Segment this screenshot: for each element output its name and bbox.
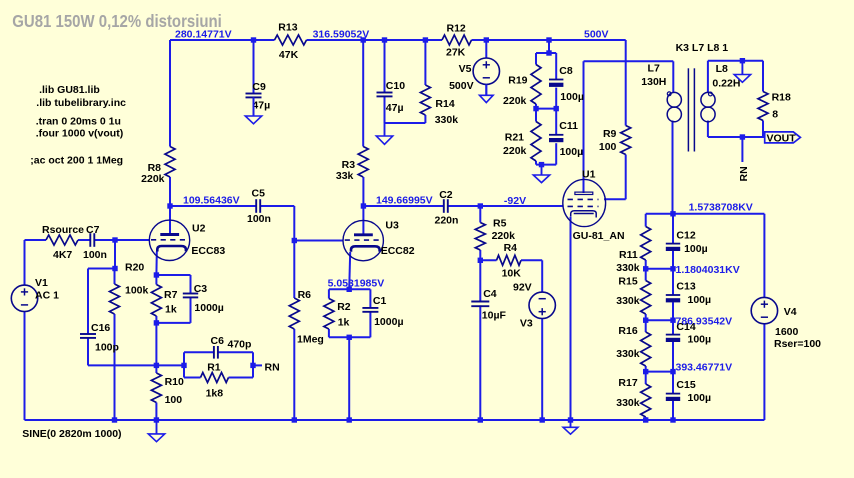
junction 12 <box>361 203 366 208</box>
svg-text:220k: 220k <box>503 145 527 157</box>
junction 13 <box>478 203 483 208</box>
wire R2 bottom lead <box>328 329 330 337</box>
wire R5 top lead <box>479 206 481 223</box>
wire R8 bottom to node 109V <box>169 177 171 206</box>
triode U2 ECC83 <box>149 220 225 260</box>
wire C6 left lead <box>184 351 214 353</box>
svg-text:1.5738708KV: 1.5738708KV <box>689 201 753 213</box>
title comment <box>12 11 222 31</box>
junction 23 <box>181 363 186 368</box>
svg-text:C16: C16 <box>91 322 110 334</box>
wire cathode node to ground rail <box>348 337 350 420</box>
junction 17 <box>154 272 159 277</box>
svg-text:470p: 470p <box>228 339 252 351</box>
wire L8 bottom to VOUT <box>708 136 765 138</box>
junction 31 <box>670 369 675 374</box>
svg-text:U3: U3 <box>385 219 399 231</box>
voltage source V5 <box>449 58 499 92</box>
wire rail 1.57KV <box>646 213 765 215</box>
wire R17 bottom lead <box>645 417 647 420</box>
wire R17 top lead <box>645 372 647 384</box>
resistor R3 <box>336 147 368 183</box>
wire R10 bottom lead <box>155 403 157 421</box>
svg-text:47µ: 47µ <box>252 99 270 111</box>
svg-text:R21: R21 <box>505 131 524 143</box>
ground below C9 <box>245 97 261 123</box>
svg-text:27K: 27K <box>446 47 466 59</box>
wire R1C6 loop to RN stub <box>253 364 262 366</box>
resistor R20 <box>110 262 149 315</box>
svg-text:R7: R7 <box>164 289 178 301</box>
spice directive ;ac <box>30 155 123 167</box>
junction 21 <box>347 335 352 340</box>
svg-text:100µ: 100µ <box>688 392 712 404</box>
svg-text:220k: 220k <box>503 95 527 107</box>
wire R16 bottom lead <box>645 366 647 372</box>
resistor R18 <box>758 91 791 120</box>
svg-text:L8: L8 <box>716 63 728 75</box>
junction 9 <box>554 106 559 111</box>
svg-text:100n: 100n <box>83 249 107 261</box>
wire R18 top lead <box>762 61 764 92</box>
wire C8 top lead <box>555 53 557 80</box>
node 786.93542V <box>676 315 733 327</box>
wire C13 top lead <box>672 269 674 295</box>
svg-text:330k: 330k <box>435 114 459 126</box>
wire R4 left lead <box>480 259 496 261</box>
net label RN rotated <box>738 166 750 181</box>
node 1.5738708KV <box>689 201 753 213</box>
capacitor C1 <box>362 295 403 328</box>
wire to C16 top <box>88 268 115 270</box>
wire R1C6 loop right up <box>252 352 254 365</box>
svg-text:R18: R18 <box>772 91 791 103</box>
svg-text:R20: R20 <box>125 262 144 274</box>
wire C6 right lead <box>218 351 253 353</box>
svg-text:1k: 1k <box>338 317 350 329</box>
svg-text:786.93542V: 786.93542V <box>676 315 733 327</box>
svg-text:C4: C4 <box>483 288 497 300</box>
svg-text:10K: 10K <box>502 268 522 280</box>
wire U1 plate lead <box>583 61 585 193</box>
capacitor C12 polarized <box>666 229 708 255</box>
svg-text:.tran 0 20ms 0 1u: .tran 0 20ms 0 1u <box>36 115 121 127</box>
wire R15 top lead <box>645 269 647 281</box>
spice directive .lib GU81.lib <box>39 84 100 96</box>
wire C1 bottom lead <box>369 312 371 337</box>
resistor R16 <box>616 325 650 366</box>
svg-text:1Meg: 1Meg <box>297 334 324 346</box>
wire C7 to grid node <box>94 239 115 241</box>
svg-text:47µ: 47µ <box>386 102 404 114</box>
wire R14 top lead <box>424 40 426 85</box>
wire L7 bottom lead <box>672 121 674 214</box>
svg-text:C5: C5 <box>252 188 266 200</box>
wire V5 bottom lead <box>485 85 487 96</box>
capacitor C14 polarized <box>666 321 711 346</box>
wire C3 bottom lead <box>190 297 192 323</box>
svg-text:33k: 33k <box>336 170 354 182</box>
svg-text:1000µ: 1000µ <box>374 316 403 328</box>
wire R1C6 loop right down <box>252 365 254 377</box>
resistor R21 <box>503 122 541 162</box>
inductor L8 secondary <box>701 63 741 122</box>
wire V4 bottom lead <box>763 324 765 420</box>
wire V1 to Rsource <box>25 239 47 241</box>
wire R21/C11 bottom link <box>536 164 556 166</box>
label C4 <box>482 288 507 322</box>
resistor R1 <box>201 362 229 400</box>
svg-text:1.1804031KV: 1.1804031KV <box>676 264 740 276</box>
wire L8 top to R18 <box>708 60 763 62</box>
capacitor C10 <box>377 80 406 114</box>
capacitor C9 <box>246 81 271 111</box>
wire R15 bottom lead <box>645 314 647 320</box>
wire C10 bottom lead <box>384 96 386 123</box>
wire R2 top lead <box>328 289 330 298</box>
svg-text:109.56436V: 109.56436V <box>183 194 240 206</box>
wire Rsource to C7 <box>78 239 90 241</box>
wire R1 left lead <box>184 377 201 379</box>
svg-text:500V: 500V <box>449 80 474 92</box>
resistor R4 <box>497 242 522 280</box>
wire C15 top lead <box>672 372 674 394</box>
svg-text:C11: C11 <box>559 120 578 132</box>
resistor R11 <box>616 227 650 275</box>
svg-text:U2: U2 <box>192 222 206 234</box>
svg-text:220n: 220n <box>435 215 459 227</box>
junction 1 <box>251 37 256 42</box>
svg-text:R4: R4 <box>504 242 518 254</box>
svg-text:R19: R19 <box>508 74 527 86</box>
output port flag VOUT <box>765 132 801 144</box>
capacitor C3 <box>183 283 224 314</box>
capacitor C15 polarized <box>666 379 711 404</box>
svg-text:SINE(0 2820m 1000): SINE(0 2820m 1000) <box>22 428 121 440</box>
wire C16 to cathode node <box>88 364 156 366</box>
capacitor C13 polarized <box>666 280 711 306</box>
wire node109 to C5 <box>170 205 256 207</box>
junction 22 <box>154 363 159 368</box>
svg-text:100µ: 100µ <box>560 91 584 103</box>
wire C16 top lead <box>87 269 89 335</box>
wire R2/C1 bottom link <box>329 336 371 338</box>
junction 6 <box>546 37 551 42</box>
wire V5 top lead <box>485 40 487 58</box>
svg-text:VOUT: VOUT <box>767 132 797 144</box>
wire R11 bottom lead <box>645 260 647 269</box>
resistor R6 <box>289 289 324 345</box>
svg-text:220k: 220k <box>141 173 165 185</box>
wire ladder rung1 <box>646 268 673 270</box>
wire C4 top lead <box>479 260 481 301</box>
svg-text:R1: R1 <box>207 362 221 374</box>
wire C12 bottom lead <box>672 251 674 269</box>
junction 11 <box>167 203 172 208</box>
junction 27 <box>670 266 675 271</box>
capacitor C16 <box>80 322 119 353</box>
junction 41 <box>643 417 648 422</box>
svg-text:R9: R9 <box>603 128 617 140</box>
svg-text:C15: C15 <box>676 379 695 391</box>
wire C16 bottom lead <box>87 338 89 366</box>
wire top 500V rail seg2 <box>307 39 443 41</box>
wire top 500V rail seg3 <box>472 39 626 41</box>
wire ground rail bottom <box>25 419 765 421</box>
resistor R10 <box>151 373 184 406</box>
resistor R15 <box>616 276 650 315</box>
svg-text:ECC83: ECC83 <box>191 245 225 257</box>
wire R21 bottom lead <box>535 161 537 165</box>
junction 14 <box>112 237 117 242</box>
wire C8 bottom lead <box>555 88 557 109</box>
wire V3 top lead <box>541 260 543 292</box>
svg-text:8: 8 <box>772 109 778 121</box>
wire C15 bottom lead <box>672 401 674 420</box>
svg-text:;ac oct 200 1 1Meg: ;ac oct 200 1 1Meg <box>30 155 123 167</box>
wire R1C6 loop left down <box>183 365 185 377</box>
wire V3 bottom lead <box>541 319 543 421</box>
junction 34 <box>112 417 117 422</box>
resistor R12 <box>442 22 472 58</box>
wire screen grid to R9 <box>604 198 626 200</box>
wire R18 bottom lead <box>762 121 764 138</box>
wire R9 bottom to screen grid <box>625 155 627 200</box>
wire R9 top lead from 500V <box>625 40 627 126</box>
wire R1C6 loop left up <box>183 352 185 365</box>
svg-text:C6: C6 <box>211 335 225 347</box>
svg-text:100: 100 <box>599 141 617 153</box>
svg-text:393.46771V: 393.46771V <box>676 362 733 374</box>
svg-text:R12: R12 <box>447 22 466 34</box>
wire R7 bottom lead <box>155 316 157 323</box>
wire top 500V rail seg1 <box>170 39 275 41</box>
wire U3 plate lead <box>362 206 364 235</box>
junction 33 <box>740 134 745 139</box>
junction 32 <box>740 58 745 63</box>
svg-text:100n: 100n <box>247 213 271 225</box>
svg-text:100µ: 100µ <box>560 146 584 158</box>
capacitor C5 <box>247 188 271 226</box>
spice directive .lib tubelibrary.inc <box>36 97 126 109</box>
svg-text:1k8: 1k8 <box>206 388 224 400</box>
wire R19 top lead <box>535 53 537 65</box>
wire R19/C8 top link <box>536 52 556 54</box>
node 5.0531985V <box>328 277 385 289</box>
wire C10-R14 bottom link <box>385 122 426 124</box>
svg-text:ECC82: ECC82 <box>381 245 415 257</box>
svg-text:280.14771V: 280.14771V <box>175 29 232 41</box>
junction 29 <box>670 318 675 323</box>
junction 5 <box>484 37 489 42</box>
svg-text:1000µ: 1000µ <box>194 302 223 314</box>
junction 2 <box>361 37 366 42</box>
wire C14 top lead <box>672 320 674 334</box>
svg-text:500V: 500V <box>584 28 609 40</box>
junction 26 <box>643 266 648 271</box>
junction 15 <box>292 238 297 243</box>
junction 36 <box>292 417 297 422</box>
pentode U1 GU-81 <box>563 169 625 242</box>
svg-text:C13: C13 <box>676 280 695 292</box>
wire C5 to corner <box>260 205 294 207</box>
svg-text:220k: 220k <box>492 230 516 242</box>
wire R20 bottom lead <box>114 314 116 420</box>
junction 28 <box>643 318 648 323</box>
wire V1 top lead <box>24 240 26 285</box>
svg-text:.lib tubelibrary.inc: .lib tubelibrary.inc <box>36 97 126 109</box>
svg-text:RN: RN <box>265 362 280 374</box>
wire C14 bottom lead <box>672 342 674 372</box>
svg-text:330k: 330k <box>616 348 640 360</box>
wire R11 top lead <box>645 214 647 227</box>
svg-text:1k: 1k <box>165 303 177 315</box>
wire C1 top lead <box>369 289 371 308</box>
ground at L8 top <box>734 61 750 83</box>
svg-text:V4: V4 <box>784 306 797 318</box>
svg-text:C2: C2 <box>439 189 453 201</box>
wire ladder rung3 <box>646 371 673 373</box>
wire C11 top lead <box>555 109 557 135</box>
svg-text:-92V: -92V <box>504 195 526 207</box>
junction 18 <box>478 258 483 263</box>
voltage source V4 <box>751 297 821 349</box>
spice directive .tran <box>36 115 121 127</box>
junction 25 <box>670 211 675 216</box>
ground below R21 C11 <box>533 165 549 183</box>
junction 20 <box>347 287 352 292</box>
svg-text:C12: C12 <box>676 229 695 241</box>
svg-text:R5: R5 <box>493 218 507 230</box>
svg-text:100µ: 100µ <box>684 243 708 255</box>
wire L7 top lead <box>672 61 674 93</box>
svg-text:R15: R15 <box>618 276 637 288</box>
wire R20 top lead <box>114 269 116 285</box>
svg-text:AC 1: AC 1 <box>35 290 59 302</box>
wire R21 top lead <box>535 109 537 122</box>
svg-text:330k: 330k <box>616 397 640 409</box>
svg-text:10µF: 10µF <box>482 310 507 322</box>
wire C2 to node -92V <box>448 205 481 207</box>
svg-text:RN: RN <box>738 166 750 181</box>
resistor R9 <box>599 126 631 155</box>
node 316.59052V <box>313 29 370 41</box>
wire R14 bottom lead <box>424 115 426 123</box>
mutual coupling K3 label <box>676 42 729 54</box>
wire U3 cathode lead <box>349 252 350 289</box>
wire grid node down <box>114 240 116 269</box>
svg-text:1600: 1600 <box>775 326 799 338</box>
wire R3 bottom to node 149V <box>362 177 364 206</box>
wire R2/C1 top link <box>329 288 371 290</box>
wire R19/C8 mid link <box>536 108 556 110</box>
resistor R5 <box>475 218 515 251</box>
svg-text:100µ: 100µ <box>688 334 712 346</box>
wire R7/C3 bottom link <box>156 322 190 324</box>
junction 10 <box>539 162 544 167</box>
svg-text:GU-81_AN: GU-81_AN <box>573 230 625 242</box>
svg-text:R16: R16 <box>618 325 637 337</box>
voltage source V1 <box>11 277 59 311</box>
svg-text:C8: C8 <box>559 65 573 77</box>
junction 35 <box>154 417 159 422</box>
node 149.66995V <box>376 195 433 207</box>
svg-text:130H: 130H <box>641 76 666 88</box>
capacitor C4 <box>471 302 489 307</box>
svg-text:100µ: 100µ <box>688 294 712 306</box>
triode U3 ECC82 <box>343 219 415 261</box>
wire V4 top lead <box>763 214 765 298</box>
node -92V <box>504 195 526 207</box>
svg-text:V5: V5 <box>459 63 472 75</box>
svg-text:100p: 100p <box>95 341 119 353</box>
wire C13 bottom lead <box>672 302 674 320</box>
wire C4 bottom lead <box>479 305 481 420</box>
wire U3 grid <box>294 240 343 242</box>
capacitor C6 <box>211 335 252 359</box>
wire plate to transformer L7 <box>584 60 674 62</box>
svg-text:R10: R10 <box>165 376 184 388</box>
wire R10 node to R1C6 loop <box>156 364 184 366</box>
junction 7 <box>546 50 551 55</box>
capacitor C2 <box>435 189 459 227</box>
svg-text:R2: R2 <box>337 301 351 313</box>
svg-text:U1: U1 <box>582 169 596 181</box>
wire R6 bottom lead <box>293 329 295 420</box>
wire node149 to C2 <box>363 205 443 207</box>
svg-text:R13: R13 <box>278 22 297 34</box>
transformer core <box>688 68 694 151</box>
wire R16 top lead <box>645 320 647 332</box>
ground below C10 <box>376 123 392 144</box>
svg-text:5.0531985V: 5.0531985V <box>328 277 385 289</box>
svg-text:R11: R11 <box>619 249 638 261</box>
junction 16 <box>112 266 117 271</box>
wire C9 bottom lead <box>253 97 255 116</box>
junction 39 <box>540 417 545 422</box>
inductor L7 primary <box>641 62 681 122</box>
wire C3 top lead <box>190 275 192 294</box>
wire cathode node to C3 <box>156 274 190 276</box>
ground below V3 rail <box>563 420 578 434</box>
wire R4 right lead <box>521 259 542 261</box>
svg-text:.four 1000 v(vout): .four 1000 v(vout) <box>36 128 124 140</box>
node 500V <box>584 28 609 40</box>
wire L8 top lead <box>707 61 709 93</box>
svg-text:92V: 92V <box>513 282 532 294</box>
junction 40 <box>568 417 573 422</box>
ground below V5 <box>480 85 494 103</box>
wire C9 top lead <box>253 40 255 94</box>
wire L8 bottom lead <box>707 121 709 138</box>
wire R3 top lead <box>362 40 364 147</box>
svg-text:R6: R6 <box>298 289 312 301</box>
wire corner down to grid node <box>293 206 295 241</box>
resistor R19 <box>503 65 541 108</box>
wire U1 cathode to ground rail <box>570 217 572 420</box>
node 393.46771V <box>676 362 733 374</box>
svg-text:C1: C1 <box>373 295 387 307</box>
svg-text:R17: R17 <box>618 377 637 389</box>
svg-text:Rsource: Rsource <box>42 224 84 236</box>
svg-text:C3: C3 <box>194 283 208 295</box>
capacitor C8 polarized <box>549 65 584 103</box>
wire C10 top lead <box>384 40 386 93</box>
junction 38 <box>478 417 483 422</box>
resistor Rsource <box>42 224 84 261</box>
wire V1 bottom lead <box>24 312 26 420</box>
wire R7 top lead <box>155 275 157 285</box>
